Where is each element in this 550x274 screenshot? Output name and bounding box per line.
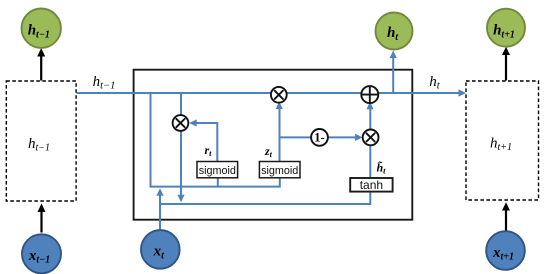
svg-text:tanh: tanh [360,178,383,192]
svg-text:sigmoid: sigmoid [261,165,298,177]
svg-text:sigmoid: sigmoid [199,165,236,177]
svg-text:1-: 1- [314,131,324,145]
